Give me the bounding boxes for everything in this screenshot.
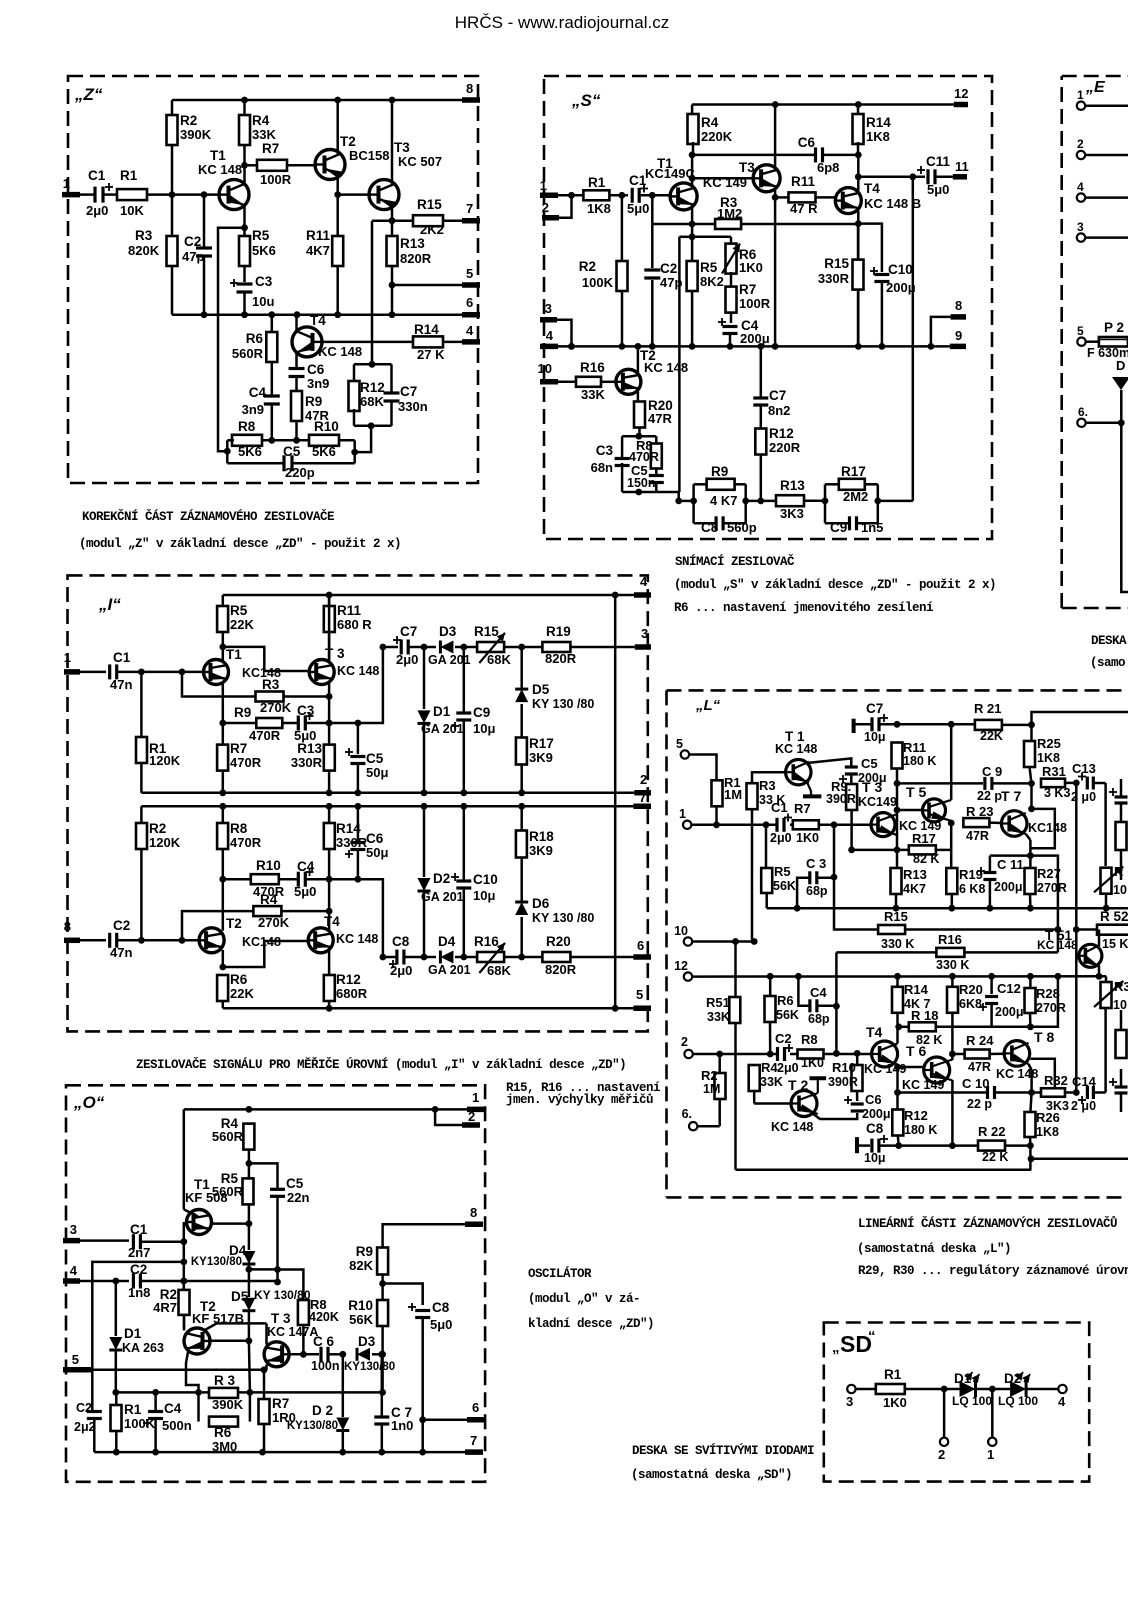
svg-text:R26: R26 [1036,1110,1060,1125]
pin 4 [1077,180,1128,202]
resistor R4 [239,100,276,165]
svg-text:LQ 100: LQ 100 [952,1394,992,1408]
svg-text:1: 1 [540,178,547,193]
caption Z line1 [82,509,334,524]
wire emitter rail [767,905,1128,912]
resistor R2 [579,195,628,346]
pin 5 [633,987,651,1008]
svg-text:C8: C8 [866,1121,884,1136]
module I border [68,575,648,1031]
svg-text:KOREKČNÍ ČÁST ZÁZNAMOVÉHO ZESI: KOREKČNÍ ČÁST ZÁZNAMOVÉHO ZESILOVAČE [82,509,334,524]
resistor R15 [834,909,1056,951]
svg-text:330 K: 330 K [936,958,969,972]
svg-text:DESKA SE SVÍTIVÝMI DIODAMI: DESKA SE SVÍTIVÝMI DIODAMI [632,1443,814,1458]
wire top right rail [1032,712,1128,725]
svg-text:KC 148: KC 148 [771,1120,813,1134]
svg-text:7: 7 [639,790,646,805]
svg-text:2μ0: 2μ0 [86,203,108,218]
svg-text:4R7: 4R7 [153,1300,177,1315]
svg-text:10u: 10u [252,294,274,309]
svg-text:C4: C4 [249,385,267,400]
svg-text:15 K: 15 K [1102,937,1128,951]
capacitor C4 [279,859,362,899]
svg-text:6.: 6. [682,1107,692,1121]
resistor R12 [324,972,368,1008]
svg-text:R18: R18 [529,829,554,844]
resistor R1 [117,168,219,218]
resistor R28 [1025,976,1066,1027]
resistor R8 [232,419,310,459]
svg-text:1K0: 1K0 [796,831,819,845]
svg-text:33K: 33K [707,1010,730,1024]
svg-text:4: 4 [1077,180,1084,194]
transistor T2 [199,879,281,967]
resistor R12 [349,364,385,426]
svg-text:„L“: „L“ [695,697,721,714]
svg-text:D3: D3 [439,624,457,639]
resistor R2 [697,1051,725,1127]
svg-text:T 3: T 3 [271,1311,291,1326]
pin 1 [987,1389,997,1462]
transistor T2 [616,346,688,401]
capacitor C6 [844,1092,891,1121]
pin 12 [674,959,692,981]
svg-text:68p: 68p [808,1012,830,1026]
resistor R13 [891,867,927,908]
svg-text:22n: 22n [287,1190,309,1205]
svg-text:R5: R5 [700,260,718,275]
svg-text:1K8: 1K8 [1036,1125,1059,1139]
module O border [66,1085,485,1482]
svg-text:R16: R16 [580,360,605,375]
svg-text:C7: C7 [866,701,883,716]
svg-text:5: 5 [676,737,683,751]
svg-text:10μ: 10μ [473,721,495,736]
resistor R9 [291,382,329,440]
wire pin2 elbow [559,192,575,218]
svg-text:R8: R8 [230,821,248,836]
svg-text:KC 148: KC 148 [318,344,362,359]
svg-text:R3: R3 [262,677,280,692]
svg-text:5K6: 5K6 [252,243,276,258]
svg-text:4K7: 4K7 [903,882,926,896]
svg-text:5K6: 5K6 [238,444,262,459]
resistor R3 [209,1373,244,1412]
svg-text:D6: D6 [532,896,550,911]
wire pin2 row [693,1050,872,1057]
resistor R8 [278,1270,339,1358]
caption O line2 [528,1292,640,1306]
capacitor C2 [80,918,199,960]
pin 3 [846,1385,876,1409]
caption SD line2 [631,1468,792,1482]
svg-text:R16: R16 [474,934,499,949]
svg-text:R4: R4 [260,892,278,907]
wire R9 C8 rails [675,484,776,523]
pin 3 [635,626,651,647]
svg-text:R17: R17 [529,736,554,751]
svg-text:R13: R13 [780,478,805,493]
svg-text:22K: 22K [230,617,254,632]
transistor T4 [292,313,414,368]
svg-text:1K0: 1K0 [883,1395,907,1410]
svg-text:„S“: „S“ [571,91,601,110]
wire bottom right rail [1028,1146,1128,1171]
pin 2 [634,772,651,793]
module SD border [824,1323,1089,1482]
svg-text:C10: C10 [888,262,913,277]
svg-text:R 23: R 23 [966,804,993,819]
pin 4 [540,328,558,346]
wire bus pin2 [141,789,634,796]
svg-text:200μ: 200μ [740,331,770,346]
wire bus pin5 [223,1005,634,1012]
svg-text:KY130/80: KY130/80 [191,1256,242,1268]
resistor R51 [706,942,740,1170]
pin 5 [63,1352,91,1370]
svg-text:2μ2: 2μ2 [74,1420,96,1434]
svg-text:6K8: 6K8 [959,997,982,1011]
svg-text:680 R: 680 R [337,617,372,632]
svg-text:R12: R12 [904,1108,928,1123]
svg-text:200μ: 200μ [994,880,1023,894]
svg-text:kladní desce „ZD"): kladní desce „ZD") [528,1317,654,1331]
pin 3 [1077,220,1128,242]
svg-text:C12: C12 [997,981,1021,996]
wire C13 corner [1104,783,1107,866]
svg-text:R19: R19 [959,867,983,882]
svg-text:33 K: 33 K [759,793,785,807]
svg-text:47 R: 47 R [790,201,818,216]
resistor R8 [798,1032,824,1070]
svg-text:R6: R6 [246,331,264,346]
resistor R15 [818,224,864,347]
svg-text:R9: R9 [711,464,728,479]
pin 10 [674,924,692,946]
svg-text:5: 5 [72,1352,79,1367]
svg-text:R51: R51 [706,995,730,1010]
svg-text:C7: C7 [769,388,786,403]
capacitor C5 [345,723,388,793]
svg-text:47n: 47n [110,945,132,960]
resistor R6 [199,1392,250,1454]
capacitor C3 [591,443,630,475]
module Z name label [74,85,103,104]
resistor R3 [182,672,329,715]
wire C14 corner [1104,1008,1107,1093]
svg-text:„Z“: „Z“ [74,85,103,104]
svg-text:330R: 330R [291,755,323,770]
svg-text:1K8: 1K8 [1037,751,1060,765]
node junction A [941,1386,948,1393]
pin 9 [950,328,966,346]
svg-text:R15: R15 [884,909,908,924]
svg-text:47p: 47p [182,249,204,264]
resistor R11 [306,228,343,315]
wire bottom bus [172,311,462,318]
capacitor C4 [718,318,770,346]
svg-text:R25: R25 [1037,736,1061,751]
svg-text:1M: 1M [703,1082,720,1096]
svg-text:2μ0: 2μ0 [770,831,792,845]
svg-text:C6: C6 [798,135,816,150]
svg-text:10: 10 [1113,998,1127,1012]
pin 2 [938,1389,948,1462]
transistor T1 [204,647,281,744]
resistor R14 [413,322,462,362]
wire node to R12 [372,221,392,365]
pin 10 [538,361,558,382]
resistor R4 [749,1060,791,1104]
svg-text:R1: R1 [884,1367,902,1382]
capacitor C10 [451,803,498,957]
resistor R3 [652,195,858,229]
capacitor C3 [230,274,274,318]
svg-text:R7: R7 [230,741,247,756]
svg-text:D5: D5 [231,1289,249,1304]
svg-text:220K: 220K [701,129,733,144]
resistor R31 [1041,764,1080,800]
wire bottom rail [94,1449,465,1456]
svg-text:C8: C8 [701,520,719,535]
diode D4 [424,934,471,977]
svg-text:R7: R7 [262,141,279,156]
resistor R10 [348,1284,388,1396]
svg-text:3 K3: 3 K3 [1044,786,1070,800]
svg-text:(modul „S" v základní desce „Z: (modul „S" v základní desce „ZD" - použi… [674,578,996,592]
svg-text:R15: R15 [824,256,849,271]
resistor R20 [522,934,634,977]
resistor R8 [217,806,262,879]
svg-text:KC 148: KC 148 [1037,938,1078,952]
svg-text:C13: C13 [1072,761,1096,776]
capacitor C5 [227,444,354,480]
capacitor C4 [798,976,836,1026]
svg-text:R5: R5 [252,228,270,243]
svg-text:DESKA: DESKA [1091,634,1127,648]
wire T8 collector [1028,1059,1055,1096]
svg-text:R12: R12 [769,426,794,441]
transistor T2 [184,1299,267,1392]
svg-text:2: 2 [681,1035,688,1049]
resistor R12 [892,1108,937,1146]
svg-text:270R: 270R [1037,881,1067,895]
svg-text:T 3: T 3 [325,646,345,661]
wire T6 column [949,976,956,1145]
svg-text:C 10: C 10 [962,1076,989,1091]
svg-text:ZESILOVAČE SIGNÁLU PRO MĚŘIČE: ZESILOVAČE SIGNÁLU PRO MĚŘIČE ÚROVNÍ (mo… [136,1057,626,1072]
svg-text:56K: 56K [776,1008,799,1022]
svg-text:C 11: C 11 [997,857,1024,872]
svg-text:22 K: 22 K [982,1150,1008,1164]
svg-text:KC149C: KC149C [645,166,695,181]
caption O line3 [528,1317,654,1331]
resistor R18 [516,803,554,901]
svg-text:3: 3 [1077,220,1084,234]
wire T4 column [894,976,902,1109]
svg-text:GA 201: GA 201 [421,890,464,904]
svg-text:C3: C3 [596,443,614,458]
pin 7 [465,1433,483,1452]
resistor R23 [963,804,1001,843]
resistor R11 [892,740,937,787]
svg-text:200μ: 200μ [995,1005,1024,1019]
svg-text:T 8: T 8 [1034,1029,1054,1045]
resistor R16 [836,932,1058,972]
svg-text:C4: C4 [810,985,827,1000]
svg-text:R2: R2 [579,259,596,274]
svg-text:C10: C10 [473,872,498,887]
svg-text:R9: R9 [305,394,322,409]
svg-text:C6: C6 [366,831,384,846]
wire D4 row [246,1266,278,1273]
svg-text:33K: 33K [581,387,605,402]
caption S line3 [674,601,933,615]
svg-text:2μ0: 2μ0 [777,1061,799,1075]
transistor T4 [308,879,378,975]
caption L line2 [857,1242,1011,1256]
LED D2 [992,1371,1058,1408]
svg-text:1n5: 1n5 [861,520,883,535]
diode D5 [231,1288,311,1392]
svg-text:1: 1 [987,1447,994,1462]
resistor R32 [1041,1073,1080,1113]
capacitor C3 [282,703,361,743]
caption Z line2 [79,537,401,551]
module I name label [98,595,121,614]
transistor T1 [775,729,817,785]
resistor R21 [974,701,1035,743]
wire T1 collector [807,758,851,766]
svg-text:R: R [1114,864,1124,879]
svg-text:68n: 68n [591,460,613,475]
transistor T8 [996,1029,1054,1081]
svg-text:R10: R10 [256,858,281,873]
resistor R20 [634,398,673,440]
resistor R6 [232,315,277,395]
svg-text:(samo: (samo [1090,656,1125,670]
svg-text:270R: 270R [1036,1001,1066,1015]
pin 8 [64,919,80,940]
svg-text:330R: 330R [818,271,850,286]
svg-text:4: 4 [70,1263,78,1278]
resistor R7 [726,282,771,323]
svg-text:8n2: 8n2 [768,403,790,418]
resistor R11 [324,595,373,660]
svg-text:R 3: R 3 [214,1373,236,1388]
svg-text:C 6: C 6 [313,1334,335,1349]
svg-text:R1: R1 [588,175,606,190]
svg-text:820K: 820K [128,243,160,258]
resistor R1 [136,672,181,793]
resistor R4 [182,892,333,940]
wire R16 column [833,953,840,1057]
svg-text:8: 8 [955,298,962,313]
svg-text:C2: C2 [113,918,130,933]
wire R3 row [116,1389,383,1396]
svg-text:120K: 120K [149,753,181,768]
wire T1 to T3 base [223,647,310,671]
svg-text:3: 3 [70,1222,77,1237]
svg-text:T4: T4 [324,914,340,929]
svg-text:T 7: T 7 [1001,788,1021,804]
svg-text:100n: 100n [311,1359,340,1373]
capacitor C11 [977,856,1030,909]
capacitor C9 [897,764,1032,803]
caption I line1 [136,1057,626,1072]
svg-text:47R: 47R [648,411,672,426]
svg-text:200μ: 200μ [886,280,916,295]
pin 2 [681,1035,693,1058]
transistor T2 [771,1077,818,1134]
svg-text:1: 1 [63,176,70,191]
resistor R4 [212,1116,254,1167]
svg-text:C5: C5 [861,756,878,771]
svg-text:3n9: 3n9 [242,402,264,417]
wire input row [691,821,871,828]
wire T1 collector to T3 [692,177,753,180]
svg-text:T4: T4 [310,313,326,328]
svg-text:3K3: 3K3 [780,506,804,521]
svg-text:D4: D4 [438,934,456,949]
capacitor C4 [242,385,280,440]
wire T1 column [180,1109,198,1289]
capacitor C2 [182,195,212,315]
svg-text:R 18: R 18 [911,1008,938,1023]
svg-text:KC 149: KC 149 [902,1078,944,1092]
svg-text:820R: 820R [545,962,577,977]
capacitor C1 [619,173,671,216]
resistor R11 [775,174,835,216]
svg-text:200μ: 200μ [862,1107,891,1121]
svg-text:D1: D1 [954,1371,972,1386]
svg-text:1K0: 1K0 [801,1056,824,1070]
svg-text:4: 4 [1058,1394,1066,1409]
svg-text:22K: 22K [230,986,254,1001]
svg-text:C4: C4 [164,1401,182,1416]
svg-text:1n0: 1n0 [391,1418,413,1433]
capacitor C14 [1071,1074,1106,1113]
svg-text:D2: D2 [1004,1371,1021,1386]
svg-text:R4: R4 [701,115,719,130]
svg-text:5μ0: 5μ0 [927,182,949,197]
svg-text:C6: C6 [307,362,325,377]
resistor R3 [128,195,178,315]
transistor T3 [309,595,379,744]
caption O line1 [528,1266,592,1281]
svg-text:C9: C9 [473,705,490,720]
capacitor C2 [644,195,682,346]
svg-text:180 K: 180 K [903,754,936,768]
capacitor C2 [80,1262,278,1300]
wire T5 column [948,725,955,868]
svg-text:R10: R10 [832,1060,856,1075]
svg-text:470R: 470R [249,728,281,743]
svg-text:R2: R2 [180,113,197,128]
wire pin8 elbow [928,317,951,350]
wire pin5 row [91,1369,266,1372]
svg-text:470R: 470R [230,755,262,770]
svg-text:T 2: T 2 [788,1077,808,1093]
resistor R clipped right 2 [1116,1010,1127,1058]
caption I line3 [506,1093,653,1107]
capacitor C6 [289,1334,346,1373]
svg-text:R15: R15 [417,197,442,212]
transistor T6 [898,1043,953,1092]
svg-text:(samostatná deska „SD"): (samostatná deska „SD") [631,1468,792,1482]
capacitor C2 [775,1031,799,1075]
svg-text:2: 2 [468,1109,475,1124]
